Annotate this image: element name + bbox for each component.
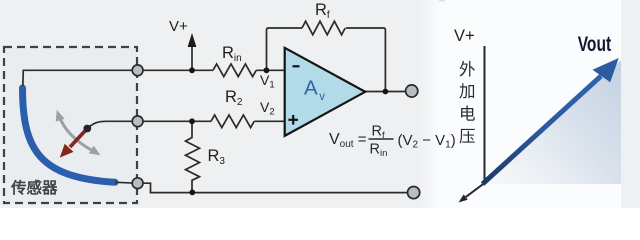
svg-text:传感器: 传感器: [10, 178, 58, 197]
svg-text:外: 外: [459, 60, 476, 79]
svg-text:V+: V+: [169, 18, 188, 35]
svg-text:电: 电: [459, 105, 476, 124]
svg-text:压: 压: [459, 128, 476, 146]
svg-text:加: 加: [459, 82, 476, 101]
svg-text:V+: V+: [454, 27, 475, 45]
svg-text:Vout: Vout: [578, 33, 612, 56]
